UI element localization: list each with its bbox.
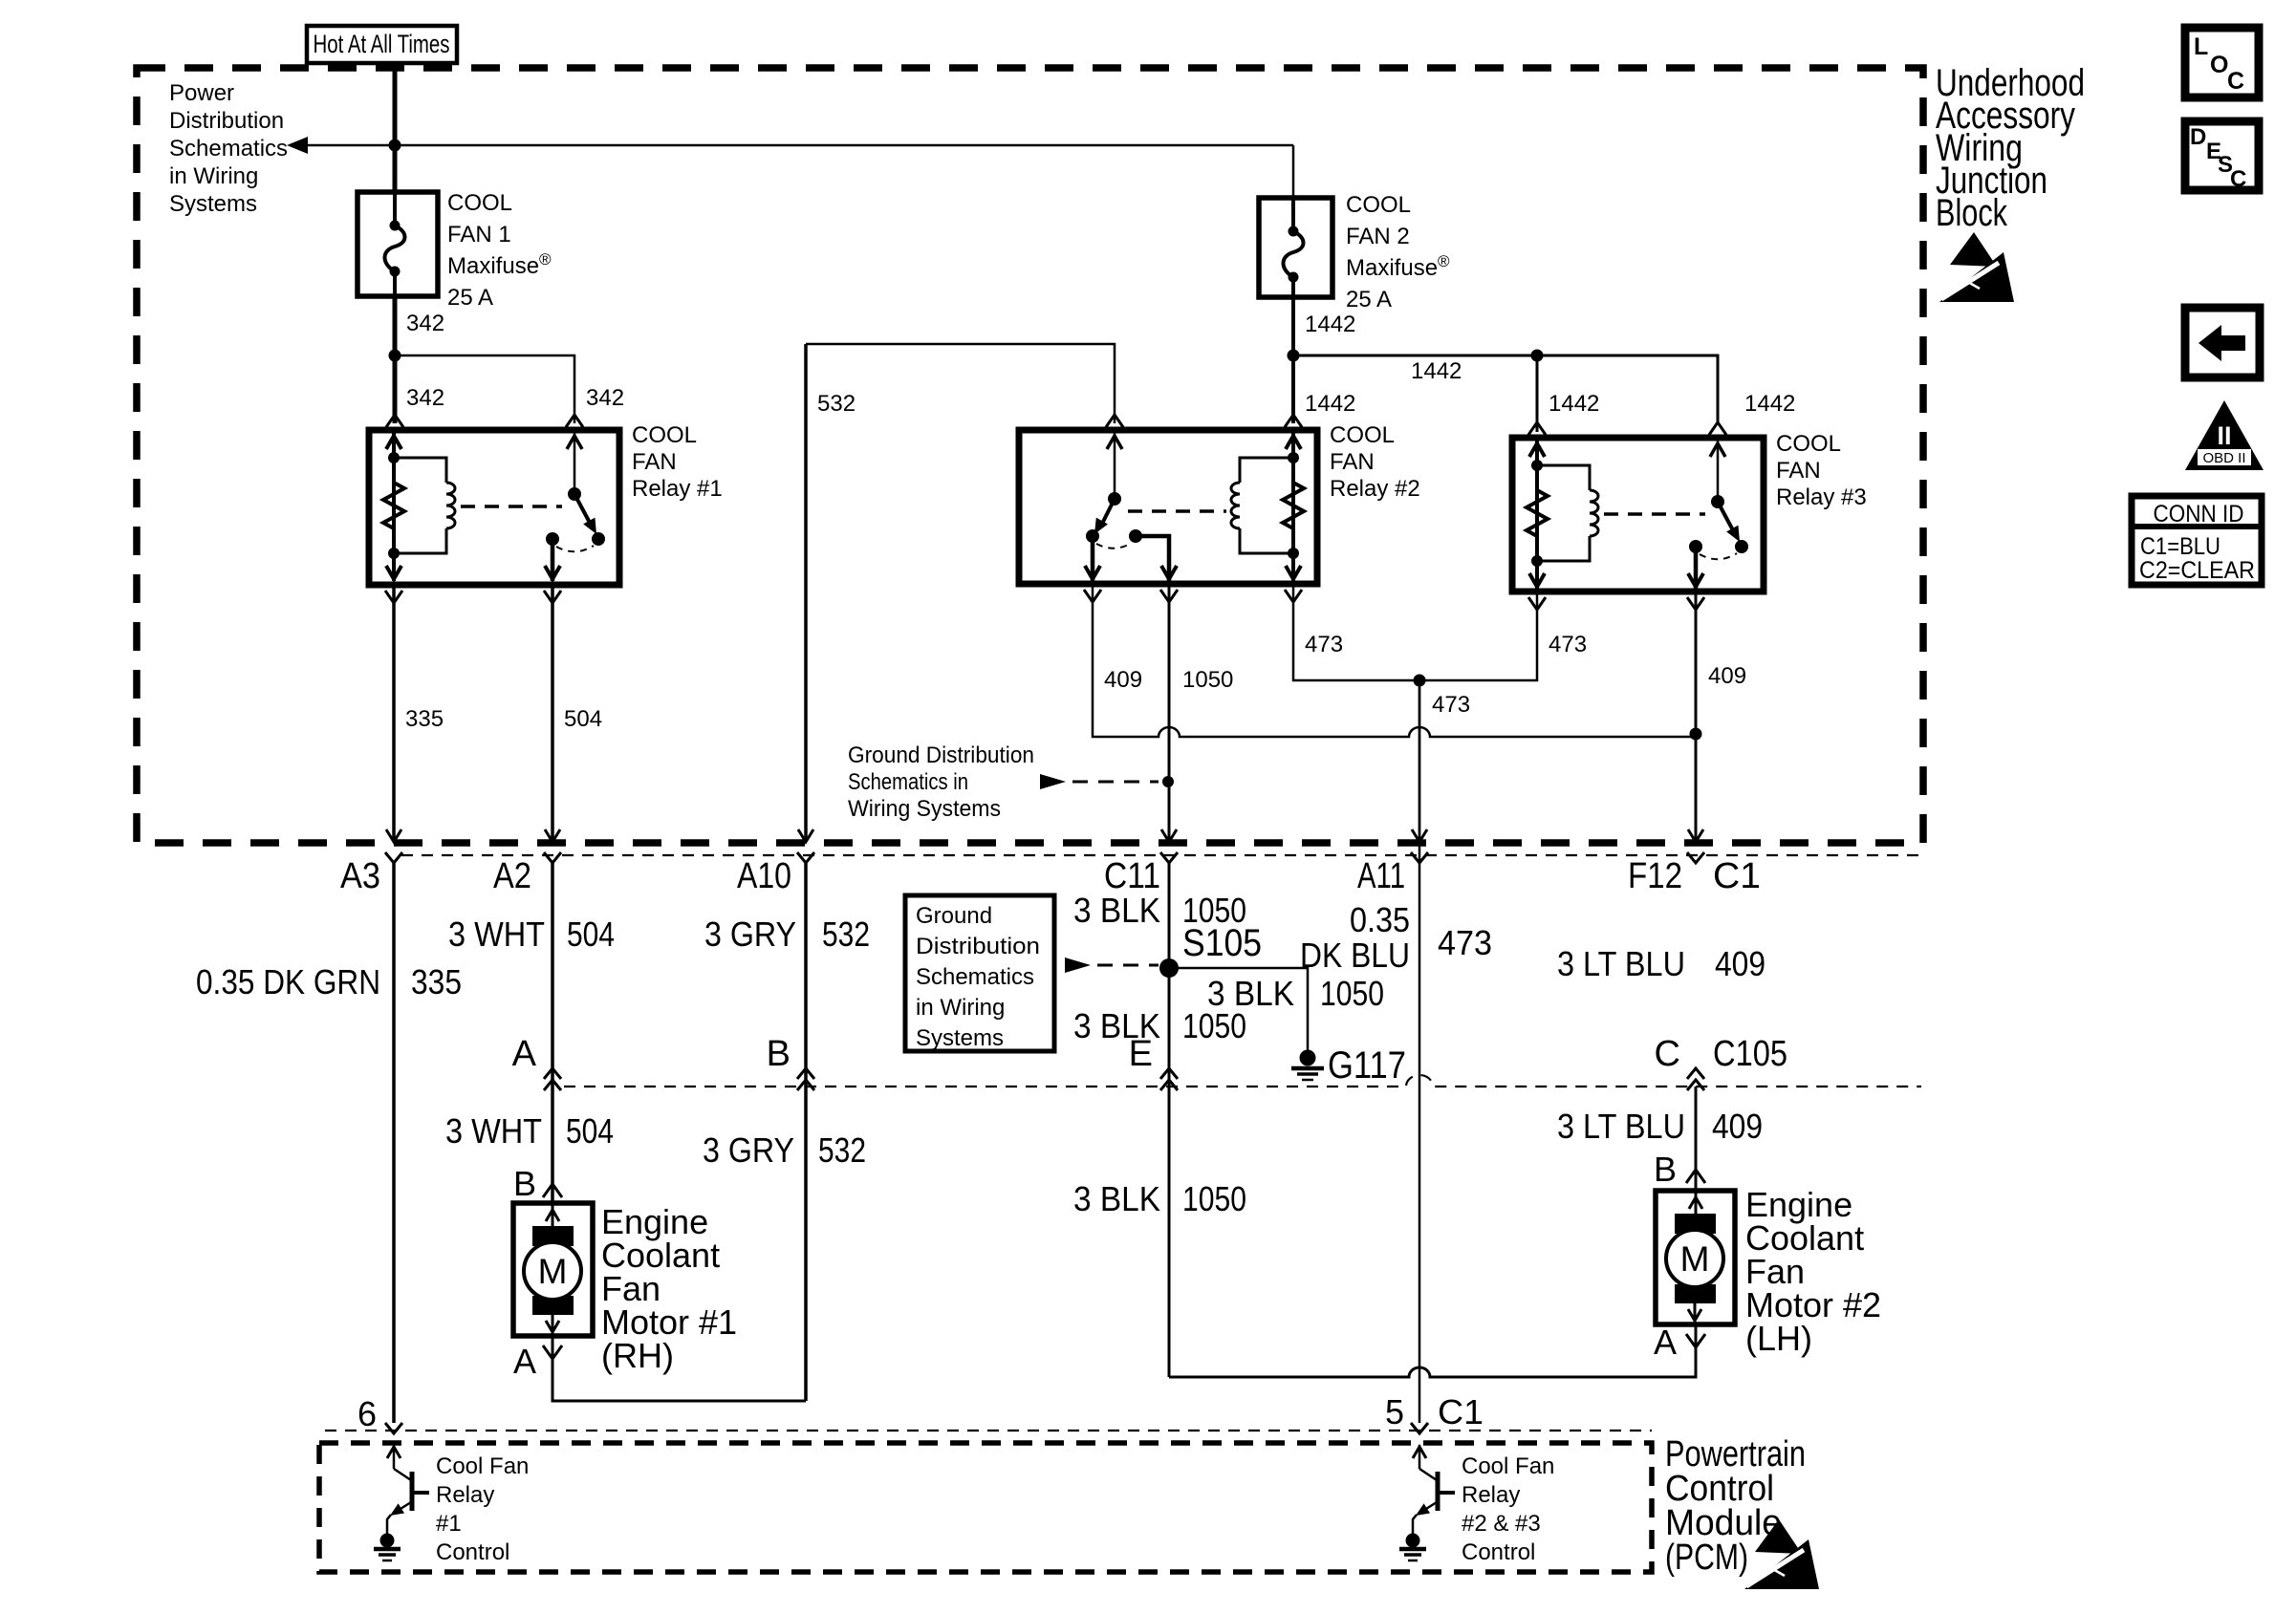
svg-text:504: 504: [566, 1111, 614, 1151]
wire 1442 to relay3 coil: [1536, 355, 1539, 432]
svg-text:CONN ID: CONN ID: [2154, 501, 2244, 527]
svg-text:1442: 1442: [1305, 391, 1355, 417]
svg-text:in Wiring: in Wiring: [916, 995, 1005, 1021]
relay switch output contact: [1689, 540, 1702, 553]
connector chevron relay3 switch pin: [1709, 422, 1726, 435]
motor Engine Coolant Fan Motor #1 (RH): [513, 1203, 593, 1336]
svg-text:1050: 1050: [1182, 1006, 1246, 1045]
connector chevron PCM pin6: [385, 1423, 402, 1433]
svg-text:COOL: COOL: [1330, 422, 1395, 448]
relay2 second output wire 1050: [1136, 536, 1169, 581]
relay coil top junction: [388, 452, 400, 463]
wire 409 row2 to motor2: [1695, 1087, 1698, 1191]
svg-text:B: B: [513, 1164, 536, 1203]
relay coil+resistor pin wire: [392, 432, 396, 581]
svg-text:A: A: [512, 1034, 537, 1074]
junction block title: [1936, 62, 2085, 234]
wire 473 from relay2 coil: [1293, 584, 1414, 680]
relay 2 label: [1330, 422, 1420, 502]
powertrain control module dashed border: [319, 1443, 1652, 1572]
svg-text:C1: C1: [1713, 856, 1761, 896]
note "Power Distribution Schematics in Wiring Systems": [169, 80, 288, 217]
svg-text:FAN 2: FAN 2: [1346, 224, 1410, 249]
svg-text:DK BLU: DK BLU: [1300, 936, 1410, 975]
svg-text:473: 473: [1432, 692, 1470, 718]
svg-text:3 WHT: 3 WHT: [445, 1111, 542, 1151]
connector chevron motor2 A: [1686, 1334, 1705, 1347]
svg-text:Ground: Ground: [916, 903, 992, 929]
splice S105: [1159, 958, 1179, 978]
connector C105 line with hop: [564, 1075, 1921, 1087]
svg-text:(PCM): (PCM): [1665, 1538, 1748, 1578]
svg-text:409: 409: [1708, 663, 1746, 689]
connector chevron relay1 switch pin: [566, 415, 583, 427]
wire 1050 row2 down: [1168, 1087, 1171, 1377]
svg-text:C1=BLU: C1=BLU: [2140, 533, 2220, 560]
connector chevrons row2: [544, 1068, 561, 1079]
connector chevron below relay1 switch pin: [544, 591, 561, 603]
svg-text:FAN: FAN: [1776, 458, 1821, 484]
CONN ID table: [2132, 496, 2262, 585]
svg-text:Relay #1: Relay #1: [632, 476, 723, 502]
wire 532 row2 down: [804, 1087, 808, 1401]
relay switch arm: [574, 494, 590, 523]
svg-text:Schematics: Schematics: [916, 964, 1034, 990]
ground PCM driver 2: [1406, 1534, 1420, 1548]
svg-text:Cool Fan: Cool Fan: [1462, 1453, 1554, 1479]
connector chevron relay1 coil pin: [386, 415, 403, 427]
svg-text:3 GRY: 3 GRY: [704, 915, 796, 954]
svg-text:409: 409: [1104, 667, 1142, 693]
note "Ground Distribution Schematics in Wiring Systems" (upper): [848, 742, 1034, 822]
svg-text:F12: F12: [1628, 856, 1682, 896]
svg-text:FAN: FAN: [1330, 449, 1375, 475]
fuse COOL FAN 1 Maxifuse 25 A: [357, 192, 438, 296]
node junction hot feed / distribution: [389, 140, 401, 152]
relay resistor: [1527, 490, 1548, 536]
motor 2 label: [1745, 1185, 1881, 1358]
svg-text:A3: A3: [340, 856, 380, 896]
wire motor2 A to ground 1050: [1169, 1324, 1696, 1377]
wire 532 row1 to row2: [804, 863, 808, 1087]
relay switch pivot: [568, 487, 581, 501]
fuse 2 label: [1346, 192, 1450, 312]
motor 1 label: [601, 1202, 737, 1375]
relay2 coil: [1240, 458, 1293, 483]
connector chevrons row1: [385, 852, 402, 863]
connector chevron relay2 switch pin: [1106, 415, 1123, 427]
svg-text:C105: C105: [1713, 1034, 1787, 1074]
svg-text:1442: 1442: [1549, 391, 1599, 417]
svg-text:3 WHT: 3 WHT: [448, 915, 545, 954]
svg-text:342: 342: [586, 385, 624, 411]
relay coil+resistor pin wire: [1535, 440, 1539, 589]
svg-text:#1: #1: [436, 1511, 462, 1537]
svg-text:Control: Control: [1462, 1539, 1535, 1565]
svg-text:COOL: COOL: [447, 190, 512, 216]
node junction 1442 split: [1288, 350, 1300, 362]
relay2 coil bottom junction: [1288, 548, 1299, 559]
wire 1442 distribution horizontal: [1293, 355, 1718, 424]
relay2 coil pin wire: [1291, 432, 1295, 581]
svg-text:3 LT BLU: 3 LT BLU: [1557, 1107, 1685, 1146]
svg-text:473: 473: [1549, 632, 1587, 657]
transistor 2 label: [1462, 1453, 1554, 1565]
label "0.35 DK BLU": [1300, 900, 1410, 975]
svg-text:Systems: Systems: [169, 191, 257, 217]
wire 473 down to PCM: [1419, 680, 1421, 1423]
relay switch common wire: [574, 432, 576, 494]
relay coil bottom junction: [388, 548, 400, 559]
wire 532 horizontal to relay2 switch: [806, 344, 1115, 423]
relay2 switch common wire: [1114, 432, 1116, 499]
svg-text:1442: 1442: [1305, 312, 1355, 337]
svg-text:Relay #2: Relay #2: [1330, 476, 1420, 502]
transistor Cool Fan Relay #2 &amp; #3 Control driver: [1413, 1445, 1455, 1536]
relay2 coil top junction: [1288, 452, 1299, 463]
svg-text:O: O: [2210, 52, 2228, 78]
relay switch moving contact: [592, 532, 605, 546]
node ground distribution tap: [1162, 776, 1174, 787]
svg-text:1050: 1050: [1320, 974, 1384, 1013]
relay2 moving contact: [1086, 529, 1099, 543]
relay2 second contact: [1129, 529, 1142, 543]
fuse COOL FAN 2 Maxifuse 25 A: [1259, 198, 1332, 297]
wire 473 from relay3 coil: [1425, 592, 1537, 680]
relay contact dashed arc: [1700, 553, 1737, 559]
relay switch moving contact: [1735, 540, 1748, 553]
svg-text:(RH): (RH): [601, 1336, 674, 1375]
svg-text:Distribution: Distribution: [169, 108, 284, 134]
svg-text:409: 409: [1712, 1107, 1763, 1146]
svg-text:473: 473: [1305, 632, 1343, 657]
relay2 switch output wire 409: [1091, 536, 1095, 581]
transistor Cool Fan Relay #1 Control driver: [387, 1445, 429, 1536]
connector chevron motor1 A: [543, 1345, 562, 1359]
relay resistor: [383, 483, 404, 528]
relay switch pivot: [1711, 495, 1724, 508]
ESD icon junction block: [1950, 232, 1997, 267]
underhood junction block dashed border: [137, 68, 1923, 843]
svg-text:A11: A11: [1357, 856, 1405, 896]
connector chevron PCM pin5: [1411, 1423, 1428, 1433]
wire 342 branch to relay1 switch: [395, 355, 574, 423]
svg-text:A: A: [513, 1342, 536, 1381]
node junction 473: [1414, 675, 1426, 687]
relay2 switch arm: [1101, 499, 1115, 526]
relay coil: [394, 458, 446, 483]
svg-text:C: C: [2227, 68, 2244, 95]
svg-text:342: 342: [406, 311, 444, 336]
relay COOL FAN Relay #1 box: [369, 430, 619, 585]
svg-text:Hot At All Times: Hot At All Times: [314, 30, 450, 58]
wire motor1 A to 532: [552, 1336, 806, 1401]
wire 335 relay1 to junction block edge: [392, 585, 396, 841]
svg-text:C2=CLEAR: C2=CLEAR: [2139, 557, 2255, 584]
connector chevron motor2 B: [1686, 1170, 1705, 1183]
svg-text:G117: G117: [1328, 1044, 1406, 1087]
relay2 contact dashed arc: [1096, 543, 1132, 549]
svg-text:0.35: 0.35: [1350, 900, 1410, 939]
svg-text:0.35 DK GRN: 0.35 DK GRN: [196, 962, 380, 1001]
back arrow icon: [2185, 308, 2260, 377]
wire hot feed from Hot At All Times: [393, 63, 398, 192]
connector chevrons below relay3: [1528, 597, 1546, 610]
svg-text:(LH): (LH): [1745, 1319, 1812, 1358]
wire 504 relay1 to junction block edge: [551, 585, 554, 841]
svg-text:Distribution: Distribution: [916, 934, 1040, 959]
wire 1050 from relay2 to block edge: [1168, 584, 1171, 841]
wire 504 row1 to connector row2: [551, 863, 554, 1087]
svg-text:Cool Fan: Cool Fan: [436, 1453, 529, 1479]
wire hot feed to fuse 2: [1292, 145, 1295, 198]
transistor 1 label: [436, 1453, 529, 1565]
wire 473 A11 to block edge: [1419, 680, 1421, 841]
svg-text:1442: 1442: [1411, 358, 1462, 384]
svg-text:532: 532: [817, 391, 856, 417]
node junction 409 merge: [1690, 728, 1702, 741]
svg-text:Relay: Relay: [1462, 1482, 1520, 1508]
svg-text:473: 473: [1438, 923, 1492, 962]
OBD II icon: [2185, 400, 2264, 470]
wire 409 from relay2 switch with hops: [1093, 584, 1697, 737]
svg-text:B: B: [1654, 1150, 1677, 1189]
ground distribution dashed arrow (upper): [1040, 774, 1159, 789]
ground distribution dashed arrow (lower): [1065, 958, 1159, 973]
svg-text:1442: 1442: [1744, 391, 1795, 417]
wire 409 from relay3 switch: [1695, 593, 1698, 841]
svg-text:COOL: COOL: [1346, 192, 1411, 218]
svg-text:3 BLK: 3 BLK: [1073, 1179, 1160, 1218]
svg-text:II: II: [2217, 421, 2231, 450]
svg-text:Systems: Systems: [916, 1025, 1004, 1051]
wire 532 vertical: [804, 344, 808, 841]
motor Engine Coolant Fan Motor #2 (LH): [1656, 1191, 1735, 1324]
relay switch arm: [1718, 502, 1733, 530]
svg-text:3 LT BLU: 3 LT BLU: [1557, 944, 1685, 983]
svg-text:FAN 1: FAN 1: [447, 222, 511, 247]
svg-text:Relay #3: Relay #3: [1776, 484, 1867, 510]
svg-text:FAN: FAN: [632, 449, 677, 475]
svg-text:in Wiring: in Wiring: [169, 163, 258, 189]
svg-text:M: M: [1680, 1239, 1710, 1279]
svg-text:COOL: COOL: [1776, 431, 1841, 457]
svg-text:M: M: [538, 1252, 568, 1291]
connector chevrons below relay2: [1084, 590, 1101, 602]
svg-text:532: 532: [818, 1130, 866, 1170]
relay2 switch pivot: [1108, 492, 1121, 506]
relay switch output contact: [546, 532, 559, 546]
relay contact dashed arc: [556, 546, 594, 551]
PCM title: [1665, 1434, 1806, 1578]
svg-text:E: E: [1129, 1034, 1153, 1074]
relay 1 label: [632, 422, 723, 502]
svg-text:Maxifuse®: Maxifuse®: [1346, 252, 1450, 281]
svg-text:D: D: [2190, 124, 2206, 150]
svg-text:#2 & #3: #2 & #3: [1462, 1511, 1541, 1537]
relay coil bottom junction: [1531, 555, 1543, 567]
DESC icon: [2185, 121, 2259, 192]
fuse 1 label: [447, 190, 552, 311]
svg-text:A2: A2: [493, 856, 531, 896]
svg-text:L: L: [2194, 33, 2208, 60]
svg-text:B: B: [767, 1034, 791, 1074]
svg-text:Ground Distribution: Ground Distribution: [848, 742, 1034, 768]
svg-text:Block: Block: [1936, 192, 2008, 234]
relay2 actuation dashed link: [1128, 509, 1226, 513]
wire 335 to PCM pin 6: [392, 863, 396, 1423]
svg-text:C: C: [1655, 1034, 1680, 1074]
relay switch output wire: [551, 539, 555, 581]
relay coil top junction: [1531, 460, 1543, 471]
svg-text:1050: 1050: [1182, 1179, 1246, 1218]
svg-text:504: 504: [564, 706, 602, 732]
svg-text:Control: Control: [436, 1539, 509, 1565]
relay 3 label: [1776, 431, 1867, 510]
svg-text:Relay: Relay: [436, 1482, 494, 1508]
junction block connector line: [401, 854, 1921, 856]
svg-text:Maxifuse®: Maxifuse®: [447, 250, 552, 279]
wire S105 to G117: [1169, 968, 1308, 1051]
wire 504 row2 to motor1: [551, 1087, 554, 1203]
svg-text:504: 504: [567, 915, 615, 954]
ESD icon PCM: [1755, 1519, 1802, 1554]
wire to power distribution (arrow left): [287, 137, 1293, 154]
wire 1442 fuse2 down: [1291, 297, 1295, 423]
svg-text:409: 409: [1715, 944, 1765, 983]
wire 342 fuse1 to relay1: [393, 296, 398, 423]
power source label "Hot At All Times": [307, 26, 457, 63]
relay actuation dashed link: [1604, 512, 1705, 516]
svg-text:Power: Power: [169, 80, 234, 106]
svg-text:Schematics: Schematics: [169, 136, 288, 161]
connector chevron below relay1 coil pin: [385, 591, 402, 603]
PCM connector line: [325, 1430, 1652, 1431]
svg-text:342: 342: [406, 385, 444, 411]
svg-text:335: 335: [411, 962, 462, 1001]
svg-text:6: 6: [357, 1394, 377, 1433]
ground PCM driver 1: [380, 1534, 395, 1548]
svg-text:5: 5: [1385, 1392, 1404, 1431]
relay coil: [1537, 465, 1590, 490]
svg-text:C: C: [2230, 166, 2246, 192]
svg-text:532: 532: [822, 915, 870, 954]
svg-text:COOL: COOL: [632, 422, 697, 448]
LOC icon: [2185, 28, 2259, 97]
relay2 resistor: [1283, 483, 1304, 528]
svg-text:1050: 1050: [1182, 667, 1233, 693]
svg-text:3 BLK: 3 BLK: [1073, 891, 1160, 930]
svg-text:A10: A10: [737, 856, 791, 896]
svg-text:25 A: 25 A: [447, 285, 493, 311]
svg-text:OBD II: OBD II: [2202, 450, 2245, 466]
ground G117 symbol: [1291, 1050, 1324, 1081]
relay actuation dashed link: [461, 505, 562, 508]
relay switch common wire: [1717, 440, 1720, 502]
node junction 1442 relay3 coil drop: [1531, 350, 1544, 362]
connector chevron relay3 coil pin: [1528, 422, 1546, 435]
svg-text:25 A: 25 A: [1346, 287, 1392, 312]
wire 1050 row1 to row2: [1168, 863, 1171, 1087]
svg-text:3 GRY: 3 GRY: [703, 1130, 794, 1170]
relay switch output wire: [1694, 547, 1699, 589]
relay COOL FAN Relay #2 box: [1019, 430, 1317, 584]
svg-text:S105: S105: [1182, 922, 1262, 964]
connector chevron motor1 B: [543, 1184, 562, 1197]
connector chevron relay2 coil pin: [1285, 415, 1302, 427]
svg-text:C1: C1: [1438, 1392, 1484, 1431]
note box "Ground Distribution Schematics in Wiring Systems": [905, 895, 1054, 1051]
svg-text:Schematics in: Schematics in: [848, 769, 968, 795]
relay COOL FAN Relay #3 box: [1512, 438, 1764, 592]
svg-text:A: A: [1654, 1323, 1677, 1362]
svg-text:335: 335: [405, 706, 444, 732]
svg-text:Wiring Systems: Wiring Systems: [848, 796, 1001, 822]
node junction 342 split: [389, 350, 401, 362]
